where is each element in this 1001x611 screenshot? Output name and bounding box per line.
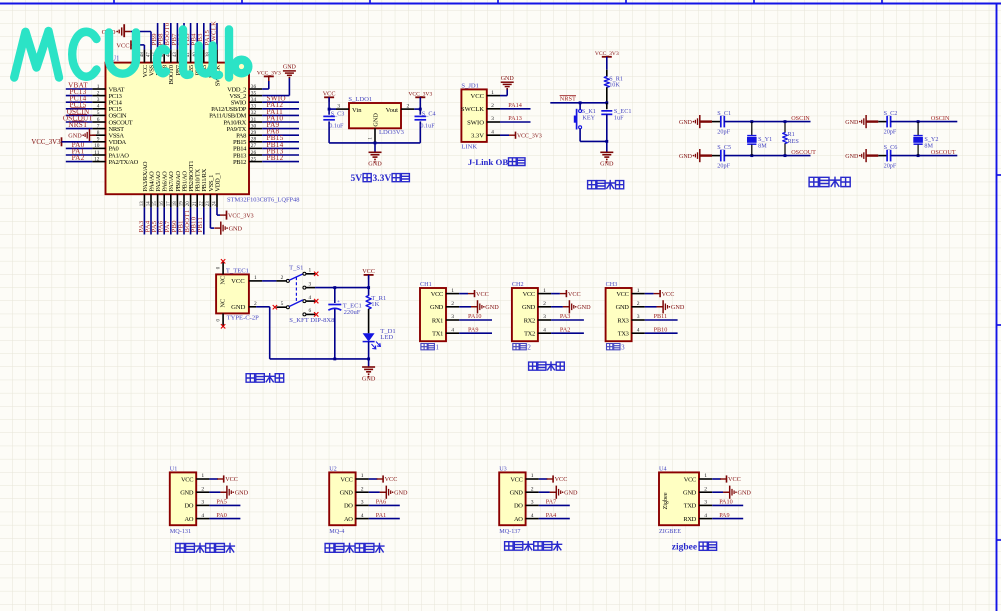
svg-text:3: 3 — [531, 500, 534, 506]
svg-text:3.3V: 3.3V — [471, 133, 484, 140]
ground at U3 pin2 — [539, 486, 578, 499]
svg-text:GND: GND — [235, 490, 249, 497]
svg-text:S_LDO1: S_LDO1 — [348, 96, 372, 103]
svg-text:27: 27 — [251, 143, 257, 149]
svg-text:GND: GND — [501, 76, 515, 82]
svg-text:20pF: 20pF — [884, 129, 897, 136]
svg-text:VCC: VCC — [340, 476, 352, 483]
MCU U1 STM32F103C8T6_LQFP48 body — [106, 54, 300, 203]
svg-text:AO: AO — [514, 516, 523, 523]
svg-text:U4: U4 — [659, 466, 667, 473]
svg-text:GND: GND — [738, 490, 752, 497]
svg-text:Vin: Vin — [352, 107, 362, 114]
svg-text:PA10: PA10 — [468, 313, 482, 320]
svg-text:0.1uF: 0.1uF — [329, 123, 344, 130]
wire and net PA3 at CH2 pin3 — [551, 313, 584, 320]
svg-text:PA0: PA0 — [216, 512, 226, 519]
capacitor S_EC1 1uF — [601, 103, 631, 142]
wire and net PA4 at U3 pin4 — [539, 512, 570, 519]
svg-text:PA2: PA2 — [72, 154, 85, 162]
svg-text:31: 31 — [251, 117, 257, 123]
svg-text:VCC_3V3: VCC_3V3 — [228, 213, 254, 219]
svg-text:3: 3 — [97, 97, 100, 103]
title serial port circuit — [529, 362, 565, 370]
ground at CH1 pin2 — [459, 300, 499, 313]
svg-text:VCC: VCC — [225, 476, 238, 483]
svg-text:2: 2 — [451, 301, 454, 307]
resistor R1 RES — [783, 120, 800, 157]
svg-text:J-Link OB: J-Link OB — [468, 157, 508, 167]
regulator S_LDO1 LDO3V3 body — [336, 96, 414, 141]
svg-text:3: 3 — [621, 343, 625, 351]
wire and net PA9 at CH1 pin4 — [459, 326, 492, 333]
svg-text:DO: DO — [514, 503, 523, 510]
svg-text:23: 23 — [206, 201, 211, 206]
svg-text:8: 8 — [97, 130, 100, 136]
svg-text:1uF: 1uF — [614, 114, 624, 121]
svg-text:1: 1 — [308, 268, 311, 274]
svg-text:36: 36 — [251, 84, 257, 90]
svg-text:AO: AO — [344, 516, 353, 523]
svg-text:GND: GND — [845, 120, 859, 126]
switch T_S1 S_KFT DIP-8X8 — [273, 265, 335, 324]
svg-text:CH2: CH2 — [512, 281, 524, 288]
svg-text:8M: 8M — [758, 142, 767, 149]
ground crystal row2 — [679, 149, 706, 162]
ground reset circuit — [600, 152, 614, 167]
wire U1 pin24 VDD_1 to VCC_3V3 — [217, 207, 220, 215]
wire and net PB10 at CH3 pin4 — [645, 326, 678, 333]
svg-text:GND: GND — [430, 304, 444, 311]
svg-text:4: 4 — [637, 327, 640, 333]
svg-text:PA7: PA7 — [546, 499, 556, 506]
svg-text:CH3: CH3 — [606, 281, 618, 288]
svg-text:PB12: PB12 — [233, 159, 246, 166]
svg-text:SWIO: SWIO — [467, 119, 484, 126]
svg-text:GND: GND — [616, 304, 630, 311]
svg-text:13: 13 — [140, 201, 145, 206]
connector S_JD1 LINK body — [461, 83, 500, 151]
capacitor S_C3 0.1uF — [323, 109, 344, 143]
U1 top pins 37-48 — [140, 21, 221, 86]
wire U1 pin23 VSS_1 to GND — [210, 207, 214, 228]
svg-text:2: 2 — [543, 301, 546, 307]
power VCC_3V3 at U1 pin 9 VDDA — [31, 137, 92, 146]
svg-text:GND: GND — [671, 304, 685, 311]
svg-text:NC: NC — [219, 299, 226, 308]
svg-text:11: 11 — [94, 150, 99, 156]
svg-text:PA6: PA6 — [376, 499, 386, 506]
svg-text:2: 2 — [491, 103, 494, 109]
svg-text:19: 19 — [180, 201, 185, 206]
svg-text:1: 1 — [361, 473, 364, 479]
svg-text:VCC: VCC — [470, 93, 484, 100]
svg-text:LINK: LINK — [461, 144, 477, 151]
svg-text:33: 33 — [251, 104, 257, 110]
wire and net PA14 at JD1 pin2 — [500, 102, 531, 109]
svg-text:22: 22 — [199, 201, 204, 206]
title ammonia detect module — [505, 542, 562, 551]
wire reset bottom — [580, 140, 608, 152]
svg-text:1K: 1K — [371, 301, 379, 308]
TEC1 NC pin bottom with no-connect — [216, 313, 225, 328]
svg-text:VCC: VCC — [476, 291, 489, 298]
svg-text:TYPE-C-2P: TYPE-C-2P — [227, 314, 260, 321]
svg-text:3: 3 — [543, 314, 546, 320]
svg-text:GND: GND — [362, 375, 376, 382]
svg-text:1: 1 — [531, 473, 534, 479]
svg-text:3: 3 — [451, 314, 454, 320]
wire and net PA0 at U1 pin4 — [209, 512, 240, 519]
svg-text:4: 4 — [531, 513, 534, 519]
svg-text:PB12: PB12 — [267, 154, 284, 162]
svg-text:VCC: VCC — [362, 268, 375, 275]
svg-text:T_TEC1: T_TEC1 — [226, 268, 249, 275]
svg-text:VCC: VCC — [568, 291, 581, 298]
title methane detect module — [325, 544, 384, 553]
svg-text:1: 1 — [201, 473, 204, 479]
svg-text:47: 47 — [147, 52, 152, 57]
svg-text:GND: GND — [68, 133, 82, 140]
wire and net PA1 at U2 pin4 — [369, 512, 400, 519]
svg-text:ZIGBEE: ZIGBEE — [659, 528, 681, 535]
svg-text:R1: R1 — [788, 131, 795, 138]
svg-text:3.3V: 3.3V — [373, 174, 392, 184]
wire U1 pin47 to GND — [131, 32, 151, 50]
power VCC at U1 pin 48 — [116, 40, 131, 49]
wire OSCOUT row — [891, 154, 958, 157]
wire and net PA5 at U1 pin3 — [209, 499, 240, 506]
power VCC_3V3 at U1 pin 24 — [220, 211, 254, 220]
svg-text:7: 7 — [97, 123, 100, 129]
svg-text:48: 48 — [140, 52, 145, 57]
svg-text:VCC_3V3: VCC_3V3 — [517, 133, 542, 139]
svg-text:PA2/TX/AO: PA2/TX/AO — [109, 159, 139, 166]
ground at U1 pin 8 VSSA — [68, 129, 96, 142]
svg-text:OSCOUT: OSCOUT — [931, 149, 956, 156]
U1 bottom pins 13-24 — [138, 161, 222, 235]
svg-text:25: 25 — [251, 156, 257, 162]
wire and net PA10 at U4 pin3 — [712, 499, 743, 506]
svg-text:TX3: TX3 — [618, 331, 629, 338]
ground crystal row1 — [679, 115, 706, 128]
ground below LDO — [368, 152, 382, 167]
wire power bottom rail — [270, 357, 370, 367]
svg-text:3: 3 — [637, 314, 640, 320]
svg-text:NRST: NRST — [560, 96, 576, 103]
module U2 MQ-4 body — [329, 466, 369, 536]
connector T_TEC1 TYPE-C-2P body — [216, 268, 259, 322]
svg-text:Vout: Vout — [386, 107, 399, 114]
ground at U1 pin 47 — [102, 24, 131, 37]
svg-text:43: 43 — [173, 52, 178, 57]
svg-text:1: 1 — [491, 90, 494, 96]
power VCC at LDO input — [323, 91, 336, 102]
svg-text:14: 14 — [147, 201, 152, 206]
svg-text:GND: GND — [373, 113, 380, 127]
svg-text:VCC: VCC — [523, 291, 535, 298]
svg-text:20pF: 20pF — [717, 163, 730, 170]
power VCC at CH2 pin1 — [551, 290, 581, 298]
svg-text:4: 4 — [491, 129, 494, 135]
title power circuit — [246, 374, 284, 383]
svg-text:MQ-131: MQ-131 — [170, 528, 191, 535]
svg-text:VCC: VCC — [431, 291, 443, 298]
svg-text:PA4: PA4 — [546, 512, 556, 519]
svg-text:30: 30 — [251, 123, 257, 129]
svg-text:RES: RES — [788, 138, 800, 145]
wire U1 pin48 to VCC — [131, 45, 144, 50]
svg-text:12: 12 — [94, 156, 100, 162]
svg-text:zigbee: zigbee — [672, 543, 697, 553]
TEC1 NC pin top with no-connect — [216, 259, 225, 274]
svg-text:6: 6 — [308, 308, 311, 314]
module U3 MQ-137 body — [499, 466, 539, 536]
LED T_D1 — [363, 328, 396, 359]
svg-text:6: 6 — [97, 117, 100, 123]
svg-text:21: 21 — [193, 201, 198, 206]
svg-text:U2: U2 — [329, 466, 337, 473]
svg-text:VCC: VCC — [385, 476, 398, 483]
ground at U1 pin2 — [209, 486, 248, 499]
ground crystal row2 — [845, 149, 872, 162]
svg-text:VCC: VCC — [684, 476, 696, 483]
svg-text:GND: GND — [340, 490, 354, 497]
svg-text:GND: GND — [522, 304, 536, 311]
svg-text:8M: 8M — [924, 142, 933, 149]
svg-text:PA14: PA14 — [508, 102, 522, 109]
svg-text:SWCLK: SWCLK — [461, 106, 484, 113]
svg-text:4: 4 — [201, 513, 204, 519]
svg-text:1: 1 — [97, 84, 100, 90]
svg-text:GND: GND — [180, 490, 194, 497]
svg-text:10: 10 — [94, 143, 100, 149]
svg-text:KEY: KEY — [582, 114, 595, 121]
capacitor T_EC1 220uF — [328, 288, 362, 359]
U1 left pins 1-12 — [63, 81, 139, 165]
svg-text:GND: GND — [564, 490, 578, 497]
wire U1 pin35 VSS_2 to GND — [262, 78, 289, 96]
svg-text:S_JD1: S_JD1 — [461, 83, 479, 90]
svg-text:2: 2 — [97, 90, 100, 96]
ground at U2 pin2 — [369, 486, 408, 499]
wire switch output rail — [315, 286, 370, 289]
svg-text:4: 4 — [451, 327, 454, 333]
svg-text:STM32F103C8T6_LQFP48: STM32F103C8T6_LQFP48 — [227, 196, 299, 203]
svg-text:U3: U3 — [499, 466, 507, 473]
svg-text:GND: GND — [510, 490, 524, 497]
svg-text:0.1uF: 0.1uF — [420, 123, 435, 130]
wire JD1 pin1 to GND — [500, 89, 507, 96]
svg-text:1: 1 — [436, 343, 440, 351]
svg-text:PB11: PB11 — [197, 217, 204, 233]
resistor S_R1 10K — [604, 70, 623, 103]
wire OSCIN row — [724, 120, 810, 123]
module U4 ZIGBEE body — [659, 466, 712, 536]
wire JD1 pin4 to VCC_3V3 — [500, 134, 509, 136]
connector CH1 body — [420, 281, 459, 351]
svg-text:34: 34 — [251, 97, 257, 103]
svg-text:PA9: PA9 — [468, 326, 478, 333]
wire OSCIN row — [891, 120, 958, 123]
svg-text:20pF: 20pF — [717, 129, 730, 136]
svg-text:VDD_1: VDD_1 — [214, 173, 221, 192]
wire and net PA7 at U3 pin3 — [539, 499, 570, 506]
svg-text:VCC: VCC — [510, 476, 522, 483]
svg-text:VCC_3V3: VCC_3V3 — [31, 139, 61, 146]
svg-text:4: 4 — [97, 104, 100, 110]
svg-text:5V: 5V — [351, 174, 363, 184]
power VCC_3V3 reset circuit — [595, 51, 619, 70]
svg-text:VCC: VCC — [728, 476, 741, 483]
wire U1 pin36 VDD_2 to VCC_3V3 — [262, 81, 269, 89]
svg-text:17: 17 — [166, 201, 171, 206]
svg-text:2: 2 — [704, 486, 707, 492]
svg-text:CH1: CH1 — [420, 281, 432, 288]
svg-text:S_C5: S_C5 — [717, 144, 731, 151]
svg-text:PA1: PA1 — [376, 512, 386, 519]
svg-text:18: 18 — [173, 201, 178, 206]
ground at CH3 pin2 — [645, 300, 685, 313]
ground power circuit — [362, 367, 376, 382]
wire and net PA6 at U2 pin3 — [369, 499, 400, 506]
power VCC at U1 pin1 — [209, 475, 238, 483]
svg-text:VCC_3V3: VCC_3V3 — [408, 92, 432, 98]
title J-Link OB port — [468, 157, 525, 167]
capacitor S_C5 20pF — [700, 144, 731, 169]
svg-text:+: + — [337, 299, 340, 305]
svg-text:32: 32 — [251, 110, 257, 116]
power VCC_3V3 at LDO output — [408, 92, 432, 102]
svg-text:DO: DO — [344, 503, 353, 510]
svg-text:TX1: TX1 — [432, 331, 443, 338]
net label OSCOUT — [791, 149, 816, 156]
svg-text:RX1: RX1 — [432, 317, 443, 324]
svg-text:RXD: RXD — [683, 516, 696, 523]
svg-text:S_C6: S_C6 — [884, 144, 898, 151]
svg-text:1: 1 — [451, 288, 454, 294]
svg-text:3: 3 — [361, 500, 364, 506]
svg-text:PB10: PB10 — [654, 326, 668, 333]
svg-text:OSCOUT: OSCOUT — [791, 149, 816, 156]
wire LDO bottom rail — [329, 141, 420, 152]
svg-text:T_S1: T_S1 — [289, 265, 303, 272]
wire and net PA13 at JD1 pin3 — [500, 115, 531, 122]
title zigbee module — [672, 542, 717, 552]
svg-text:MQ-137: MQ-137 — [499, 528, 520, 535]
svg-text:20: 20 — [186, 201, 191, 206]
svg-text:GND: GND — [600, 161, 614, 168]
svg-text:4: 4 — [308, 295, 311, 301]
svg-text:MQ-4: MQ-4 — [329, 528, 344, 535]
svg-text:PA3: PA3 — [560, 313, 570, 320]
svg-text:GND: GND — [231, 304, 246, 311]
svg-text:2: 2 — [361, 486, 364, 492]
svg-text:VCC: VCC — [555, 476, 568, 483]
svg-text:1: 1 — [368, 137, 374, 140]
power VCC at U3 pin1 — [539, 475, 568, 483]
svg-text:LDO3V3: LDO3V3 — [379, 129, 405, 136]
svg-text:24: 24 — [213, 201, 218, 206]
svg-text:5: 5 — [97, 110, 100, 116]
svg-text:VCC: VCC — [181, 476, 193, 483]
resistor T_R1 1K — [366, 288, 386, 334]
svg-text:TX2: TX2 — [524, 331, 535, 338]
svg-text:DO: DO — [185, 503, 194, 510]
svg-text:2: 2 — [527, 343, 531, 351]
svg-text:S_C4: S_C4 — [422, 111, 436, 118]
svg-text:2: 2 — [201, 486, 204, 492]
svg-text:1: 1 — [254, 275, 257, 281]
svg-text:TXD: TXD — [684, 503, 697, 510]
svg-text:VCC_3V3: VCC_3V3 — [595, 51, 619, 57]
module U1 MQ-131 body — [170, 466, 210, 536]
title ozone detect module — [176, 544, 235, 553]
ground at U1 pin 23 — [214, 222, 242, 235]
svg-text:S_C2: S_C2 — [884, 110, 898, 117]
wire and net PA2 at CH2 pin4 — [551, 326, 584, 333]
title 5V to 3.3V circuit — [351, 174, 410, 184]
power VCC at CH3 pin1 — [645, 290, 675, 298]
svg-text:2: 2 — [281, 275, 284, 281]
wire and net PA10 at CH1 pin3 — [459, 313, 492, 320]
connector CH2 body — [512, 281, 551, 351]
svg-text:RX3: RX3 — [617, 317, 628, 324]
svg-text:S_KFT DIP-8X8: S_KFT DIP-8X8 — [289, 317, 335, 324]
svg-text:GND: GND — [679, 120, 693, 126]
capacitor S_C2 20pF — [866, 110, 897, 135]
net label OSCOUT — [931, 149, 956, 156]
svg-text:NC: NC — [219, 276, 226, 285]
svg-text:GND: GND — [368, 161, 382, 168]
svg-text:VCC: VCC — [662, 291, 675, 298]
svg-text:29: 29 — [251, 130, 257, 136]
TEC1 pin1 VCC wire to switch — [249, 275, 277, 281]
svg-text:VCC: VCC — [323, 91, 336, 98]
power VCC at U2 pin1 — [369, 475, 398, 483]
svg-text:35: 35 — [251, 90, 257, 96]
svg-text:9: 9 — [97, 137, 100, 143]
svg-text:PA13: PA13 — [508, 115, 522, 122]
svg-text:GND: GND — [229, 225, 243, 232]
svg-text:OSCIN: OSCIN — [791, 115, 810, 122]
svg-text:VCC: VCC — [116, 42, 129, 49]
power VCC above LED — [362, 268, 375, 288]
wire OSCOUT row — [724, 154, 810, 157]
svg-text:AO: AO — [185, 516, 194, 523]
capacitor S_C1 20pF — [700, 110, 731, 135]
ground at JD1 pin1 — [501, 76, 515, 89]
U1 right pins 25-36 — [209, 84, 299, 166]
svg-text:2: 2 — [531, 486, 534, 492]
svg-text:3: 3 — [491, 116, 494, 122]
svg-text:GND: GND — [394, 490, 408, 497]
wire and net PA9 at U4 pin4 — [712, 512, 743, 519]
svg-text:VCC_3V3: VCC_3V3 — [257, 71, 281, 77]
svg-text:PA5: PA5 — [216, 499, 226, 506]
svg-text:3: 3 — [704, 500, 707, 506]
connector CH3 body — [606, 281, 645, 351]
svg-text:15: 15 — [153, 201, 158, 206]
ground at U4 pin2 — [712, 486, 751, 499]
svg-text:NRST: NRST — [68, 121, 88, 129]
svg-text:OSCIN: OSCIN — [931, 115, 950, 122]
svg-text:10K: 10K — [609, 82, 620, 89]
svg-text:GND: GND — [845, 154, 859, 160]
svg-text:5: 5 — [281, 301, 284, 307]
title reset circuit — [588, 181, 624, 189]
svg-text:2: 2 — [637, 301, 640, 307]
